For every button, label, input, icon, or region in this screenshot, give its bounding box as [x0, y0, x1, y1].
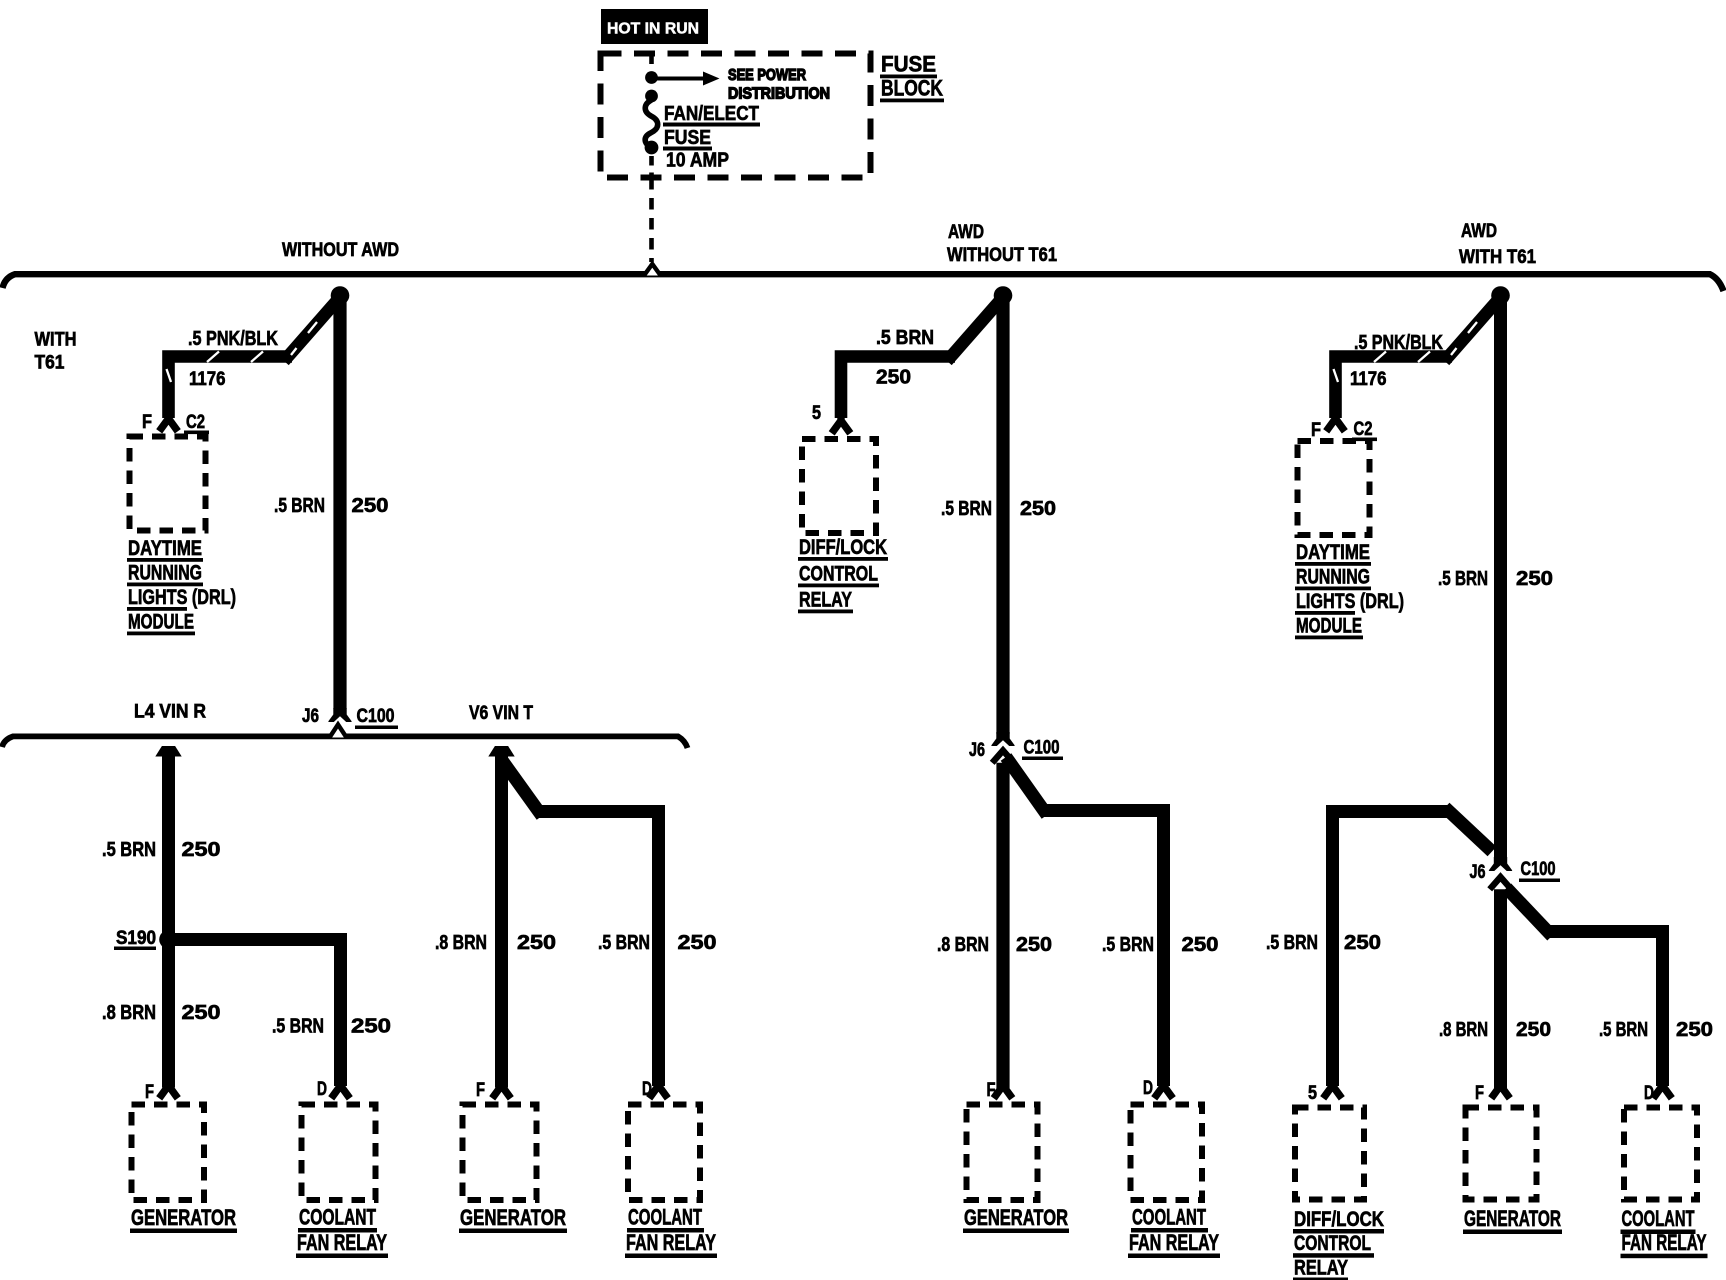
svg-text:.5 BRN: .5 BRN [941, 498, 992, 520]
label 5 [812, 403, 821, 424]
svg-text:250: 250 [182, 839, 221, 861]
label J6 C100 right [1470, 859, 1561, 883]
svg-text:DAYTIME: DAYTIME [128, 537, 202, 560]
wire .5 BRN 250 branch to coolant fan relay right [1507, 888, 1663, 1086]
node fuse bottom [645, 141, 659, 155]
svg-text:DIFF/LOCK: DIFF/LOCK [1294, 1208, 1384, 1231]
label COOLANT FAN RELAY L4 [296, 1205, 388, 1259]
svg-text:GENERATOR: GENERATOR [460, 1205, 566, 1230]
svg-text:LIGHTS (DRL): LIGHTS (DRL) [1296, 590, 1404, 613]
coolant fan relay box right [1624, 1108, 1697, 1200]
svg-text:FAN RELAY: FAN RELAY [1129, 1230, 1219, 1255]
svg-text:250: 250 [678, 932, 717, 954]
label DIFF/LOCK CONTROL RELAY right [1293, 1208, 1384, 1280]
svg-text:C2: C2 [1354, 419, 1373, 440]
svg-text:D: D [642, 1079, 652, 1100]
svg-text:5: 5 [1308, 1083, 1317, 1104]
svg-text:HOT IN RUN: HOT IN RUN [607, 21, 699, 38]
label GENERATOR L4 [130, 1205, 237, 1233]
svg-text:F: F [142, 412, 152, 433]
coolant fan relay box middle [1131, 1105, 1203, 1201]
label .5 PNK/BLK [188, 328, 278, 350]
label .5 BRN 250 V6 branch [598, 932, 717, 954]
svg-text:1176: 1176 [189, 369, 226, 390]
svg-text:250: 250 [1182, 934, 1219, 956]
svg-text:CONTROL: CONTROL [799, 563, 878, 586]
node splice junction dot middle [994, 286, 1013, 305]
svg-text:CONTROL: CONTROL [1294, 1232, 1371, 1255]
connector arrow L4 branch to bus [155, 746, 181, 757]
label DAYTIME RUNNING LIGHTS (DRL) MODULE left [127, 537, 236, 635]
svg-text:V6 VIN T: V6 VIN T [469, 703, 533, 724]
svg-text:250: 250 [517, 932, 556, 954]
svg-text:AWD: AWD [1461, 221, 1497, 242]
svg-text:250: 250 [1516, 568, 1553, 590]
label COOLANT FAN RELAY right [1621, 1206, 1708, 1258]
svg-text:J6: J6 [969, 740, 985, 761]
label .5 BRN 250 right main [1438, 568, 1553, 590]
svg-text:RUNNING: RUNNING [1296, 566, 1370, 589]
label GENERATOR V6 [459, 1205, 567, 1233]
connector pin D coolant fan relay right [1653, 1079, 1672, 1098]
label F [987, 1080, 996, 1101]
svg-text:WITH: WITH [35, 330, 77, 351]
label .5 BRN 250 middle branch [876, 327, 934, 389]
connector pin D coolant fan relay middle [1154, 1079, 1173, 1098]
svg-text:L4 VIN R: L4 VIN R [134, 702, 206, 723]
wire .8 BRN 250 V6 vertical [495, 756, 508, 1088]
coolant fan relay box L4 [302, 1105, 376, 1201]
svg-text:.5 BRN: .5 BRN [1599, 1019, 1648, 1041]
label D [642, 1079, 652, 1100]
label D [317, 1079, 327, 1100]
connector pin F C2 (DRL right) [1326, 412, 1345, 431]
label GENERATOR right [1463, 1206, 1562, 1234]
svg-text:250: 250 [1020, 498, 1056, 520]
svg-text:250: 250 [1516, 1019, 1551, 1041]
svg-text:.5 PNK/BLK: .5 PNK/BLK [1354, 332, 1443, 354]
svg-text:T61: T61 [35, 353, 65, 374]
label .5 BRN 250 right branch lower [1599, 1019, 1713, 1041]
svg-text:GENERATOR: GENERATOR [131, 1205, 236, 1230]
node splice junction dot right [1491, 286, 1510, 305]
svg-text:FAN RELAY: FAN RELAY [626, 1230, 716, 1255]
connector J6 C100 middle (flare) [991, 732, 1015, 746]
wire .5 BRN 250 branch to diff/lock relay right [1333, 808, 1493, 1087]
label F [476, 1080, 485, 1101]
arrow SEE POWER DISTRIBUTION [652, 72, 720, 86]
svg-text:.5 BRN: .5 BRN [1438, 568, 1488, 590]
label WITH T61 [35, 330, 77, 374]
label DIFF/LOCK CONTROL RELAY middle [798, 536, 888, 613]
svg-text:250: 250 [1344, 932, 1381, 954]
splice S190 [159, 930, 178, 949]
svg-text:S190: S190 [116, 928, 156, 949]
label .5 BRN 250 left main [274, 495, 389, 517]
label COOLANT FAN RELAY V6 [625, 1205, 717, 1259]
fuse FAN/ELECT 10A element squiggle [645, 100, 658, 148]
svg-text:F: F [987, 1080, 996, 1101]
connector pin F generator middle [994, 1079, 1013, 1098]
label .5 PNK/BLK right [1354, 332, 1443, 354]
svg-text:.5 BRN: .5 BRN [1266, 932, 1318, 954]
svg-text:F: F [1475, 1083, 1484, 1104]
svg-text:.5 BRN: .5 BRN [274, 495, 325, 517]
wire .5 BRN 250 to diff/lock relay [841, 300, 1001, 418]
svg-text:.8 BRN: .8 BRN [1439, 1019, 1488, 1041]
label .8 BRN 250 right lower [1439, 1019, 1551, 1041]
svg-text:J6: J6 [302, 706, 319, 727]
node fuse top [645, 90, 658, 103]
net label AWD WITH T61 [1459, 221, 1536, 268]
label .5 BRN 250 right branch [1266, 932, 1381, 954]
label .8 BRN 250 L4 lower [102, 1002, 221, 1024]
svg-text:WITH T61: WITH T61 [1459, 247, 1536, 268]
label DAYTIME RUNNING LIGHTS (DRL) MODULE right [1295, 541, 1404, 639]
label .5 BRN 250 middle main [941, 498, 1056, 520]
svg-text:.5 BRN: .5 BRN [272, 1016, 324, 1038]
svg-text:MODULE: MODULE [128, 611, 194, 634]
connector J6 C100 left (flare) [328, 708, 352, 722]
label J6 C100 left [302, 706, 398, 729]
DRL module box right [1298, 441, 1370, 535]
wire .5 PNK/BLK 1176 to DRL module left [167, 300, 338, 418]
label F [145, 1082, 154, 1103]
label S190 [114, 928, 156, 950]
node splice to power distribution [645, 71, 658, 84]
connector pin F C2 (DRL left) [159, 412, 178, 431]
svg-text:250: 250 [351, 1016, 391, 1038]
svg-text:LIGHTS (DRL): LIGHTS (DRL) [128, 586, 236, 609]
junction bump fuse drop to bus [644, 264, 661, 276]
svg-text:.5 BRN: .5 BRN [598, 932, 650, 954]
svg-text:COOLANT: COOLANT [1132, 1205, 1206, 1230]
svg-text:WITHOUT T61: WITHOUT T61 [947, 245, 1057, 266]
coolant fan relay box V6 [628, 1105, 700, 1201]
label J6 C100 middle [969, 738, 1063, 762]
net label V6 VIN T [469, 703, 533, 724]
label F right [1475, 1083, 1484, 1104]
svg-text:.5 BRN: .5 BRN [876, 327, 934, 349]
svg-text:MODULE: MODULE [1296, 615, 1362, 638]
connector chevron C100 right [1490, 877, 1512, 889]
svg-text:COOLANT: COOLANT [1622, 1206, 1695, 1231]
svg-text:DISTRIBUTION: DISTRIBUTION [728, 86, 830, 103]
label F C2 [142, 412, 209, 434]
label .8 BRN 250 V6 [435, 932, 556, 954]
connector pin 5 diff/lock relay [832, 414, 851, 433]
generator box middle [967, 1105, 1038, 1201]
power source label HOT IN RUN [601, 9, 708, 44]
svg-text:D: D [1143, 1078, 1153, 1099]
svg-text:F: F [1311, 420, 1321, 441]
fuse block name label [880, 52, 944, 103]
svg-text:10 AMP: 10 AMP [666, 150, 729, 172]
label 1176 [189, 369, 226, 390]
svg-text:250: 250 [876, 367, 911, 389]
label .5 BRN 250 middle branch lower [1102, 934, 1219, 956]
wire .5 BRN 250 main vertical left [333, 296, 346, 709]
svg-text:C100: C100 [1024, 738, 1060, 759]
label 1176 right [1350, 369, 1387, 390]
svg-text:WITHOUT AWD: WITHOUT AWD [282, 240, 399, 261]
svg-text:COOLANT: COOLANT [299, 1205, 376, 1230]
wire .5 BRN 250 main vertical middle [996, 296, 1009, 734]
wire .5 BRN 250 main vertical right [1494, 296, 1507, 862]
svg-text:J6: J6 [1470, 862, 1486, 883]
svg-text:DAYTIME: DAYTIME [1296, 541, 1370, 564]
svg-text:FUSE: FUSE [881, 52, 936, 77]
connector pin 5 diff/lock relay right [1323, 1079, 1342, 1098]
wire .5 BRN 250 branch to coolant fan relay L4 [175, 940, 341, 1087]
svg-text:.5 BRN: .5 BRN [102, 839, 156, 861]
svg-text:250: 250 [352, 495, 389, 517]
diff/lock control relay box middle [802, 439, 876, 533]
svg-text:.5 BRN: .5 BRN [1102, 934, 1154, 956]
svg-text:250: 250 [1016, 934, 1052, 956]
svg-text:5: 5 [812, 403, 821, 424]
svg-text:.8 BRN: .8 BRN [435, 932, 487, 954]
net label WITHOUT AWD [282, 240, 399, 261]
net label AWD WITHOUT T61 [947, 222, 1057, 266]
label GENERATOR middle [963, 1205, 1069, 1233]
svg-text:RELAY: RELAY [1294, 1257, 1348, 1280]
svg-text:F: F [476, 1080, 485, 1101]
connector pin D coolant fan relay V6 [649, 1079, 668, 1098]
label D [1143, 1078, 1153, 1099]
svg-text:RELAY: RELAY [799, 589, 852, 612]
label SEE POWER DISTRIBUTION [728, 67, 830, 103]
wire .5/.8 BRN 250 L4 vertical [162, 756, 175, 1088]
net label L4 VIN R [134, 702, 206, 723]
connector chevron C100 middle [992, 751, 1014, 763]
node splice junction dot left [331, 286, 350, 305]
svg-text:C100: C100 [1521, 859, 1556, 880]
DRL module box left [130, 437, 206, 531]
svg-text:C2: C2 [186, 412, 205, 433]
wire dashed stub from fuse block top [649, 56, 654, 70]
connector pin F generator V6 [492, 1079, 511, 1098]
connector arrow V6 branch to bus [488, 746, 514, 757]
svg-text:GENERATOR: GENERATOR [964, 1205, 1068, 1230]
wire .8 BRN 250 below C100 middle [996, 754, 1009, 1088]
generator box L4 [132, 1105, 205, 1201]
wire dashed drop from fuse block to bus [649, 178, 654, 262]
connector pin D coolant fan relay L4 [331, 1079, 350, 1098]
wire dashed stub below fuse [649, 156, 654, 176]
wire .5 BRN 250 branch to coolant fan relay middle [1006, 757, 1164, 1086]
svg-text:1176: 1176 [1350, 369, 1387, 390]
svg-text:SEE POWER: SEE POWER [728, 67, 806, 84]
generator box right [1466, 1108, 1537, 1200]
generator box V6 [463, 1105, 537, 1201]
svg-text:FAN RELAY: FAN RELAY [1622, 1230, 1707, 1255]
label F C2 right [1311, 419, 1377, 441]
svg-text:.8 BRN: .8 BRN [102, 1002, 156, 1024]
junction bump J6 C100 on bus [330, 725, 347, 738]
label .5 BRN 250 L4 branch [272, 1016, 391, 1038]
connector pin F generator right [1491, 1079, 1510, 1098]
label 5 right [1308, 1083, 1317, 1104]
svg-text:COOLANT: COOLANT [628, 1205, 702, 1230]
svg-text:F: F [145, 1082, 154, 1103]
svg-text:GENERATOR: GENERATOR [1464, 1206, 1561, 1231]
svg-text:AWD: AWD [948, 222, 984, 243]
label .8 BRN 250 middle lower [937, 934, 1052, 956]
bus bracket top (options) [3, 274, 1724, 291]
wire .8 BRN 250 below C100 right [1494, 880, 1507, 1088]
label FAN/ELECT FUSE 10 AMP [663, 103, 760, 172]
svg-text:250: 250 [182, 1002, 221, 1024]
svg-text:D: D [1644, 1083, 1654, 1104]
bus bracket L4/V6 options [2, 736, 688, 748]
wire .5 BRN 250 branch to coolant fan relay V6 [503, 761, 659, 1086]
svg-text:FAN RELAY: FAN RELAY [297, 1230, 387, 1255]
connector pin F generator L4 [159, 1079, 178, 1098]
connector J6 C100 right (flare) [1489, 857, 1513, 871]
svg-text:D: D [317, 1079, 327, 1100]
diff/lock control relay box right [1295, 1108, 1364, 1200]
svg-text:.8 BRN: .8 BRN [937, 934, 989, 956]
label D right [1644, 1083, 1654, 1104]
svg-text:FUSE: FUSE [664, 127, 711, 149]
svg-text:DIFF/LOCK: DIFF/LOCK [799, 536, 887, 559]
svg-text:BLOCK: BLOCK [881, 76, 943, 101]
label .5 BRN 250 L4 upper [102, 839, 221, 861]
label COOLANT FAN RELAY middle [1128, 1205, 1220, 1259]
fuse block dashed outline [601, 54, 871, 178]
svg-text:.5 PNK/BLK: .5 PNK/BLK [188, 328, 278, 350]
svg-text:250: 250 [1676, 1019, 1713, 1041]
svg-text:FAN/ELECT: FAN/ELECT [664, 103, 759, 125]
svg-text:C100: C100 [357, 706, 395, 727]
wire .5 PNK/BLK 1176 to DRL module right [1334, 300, 1499, 418]
svg-text:RUNNING: RUNNING [128, 562, 202, 585]
